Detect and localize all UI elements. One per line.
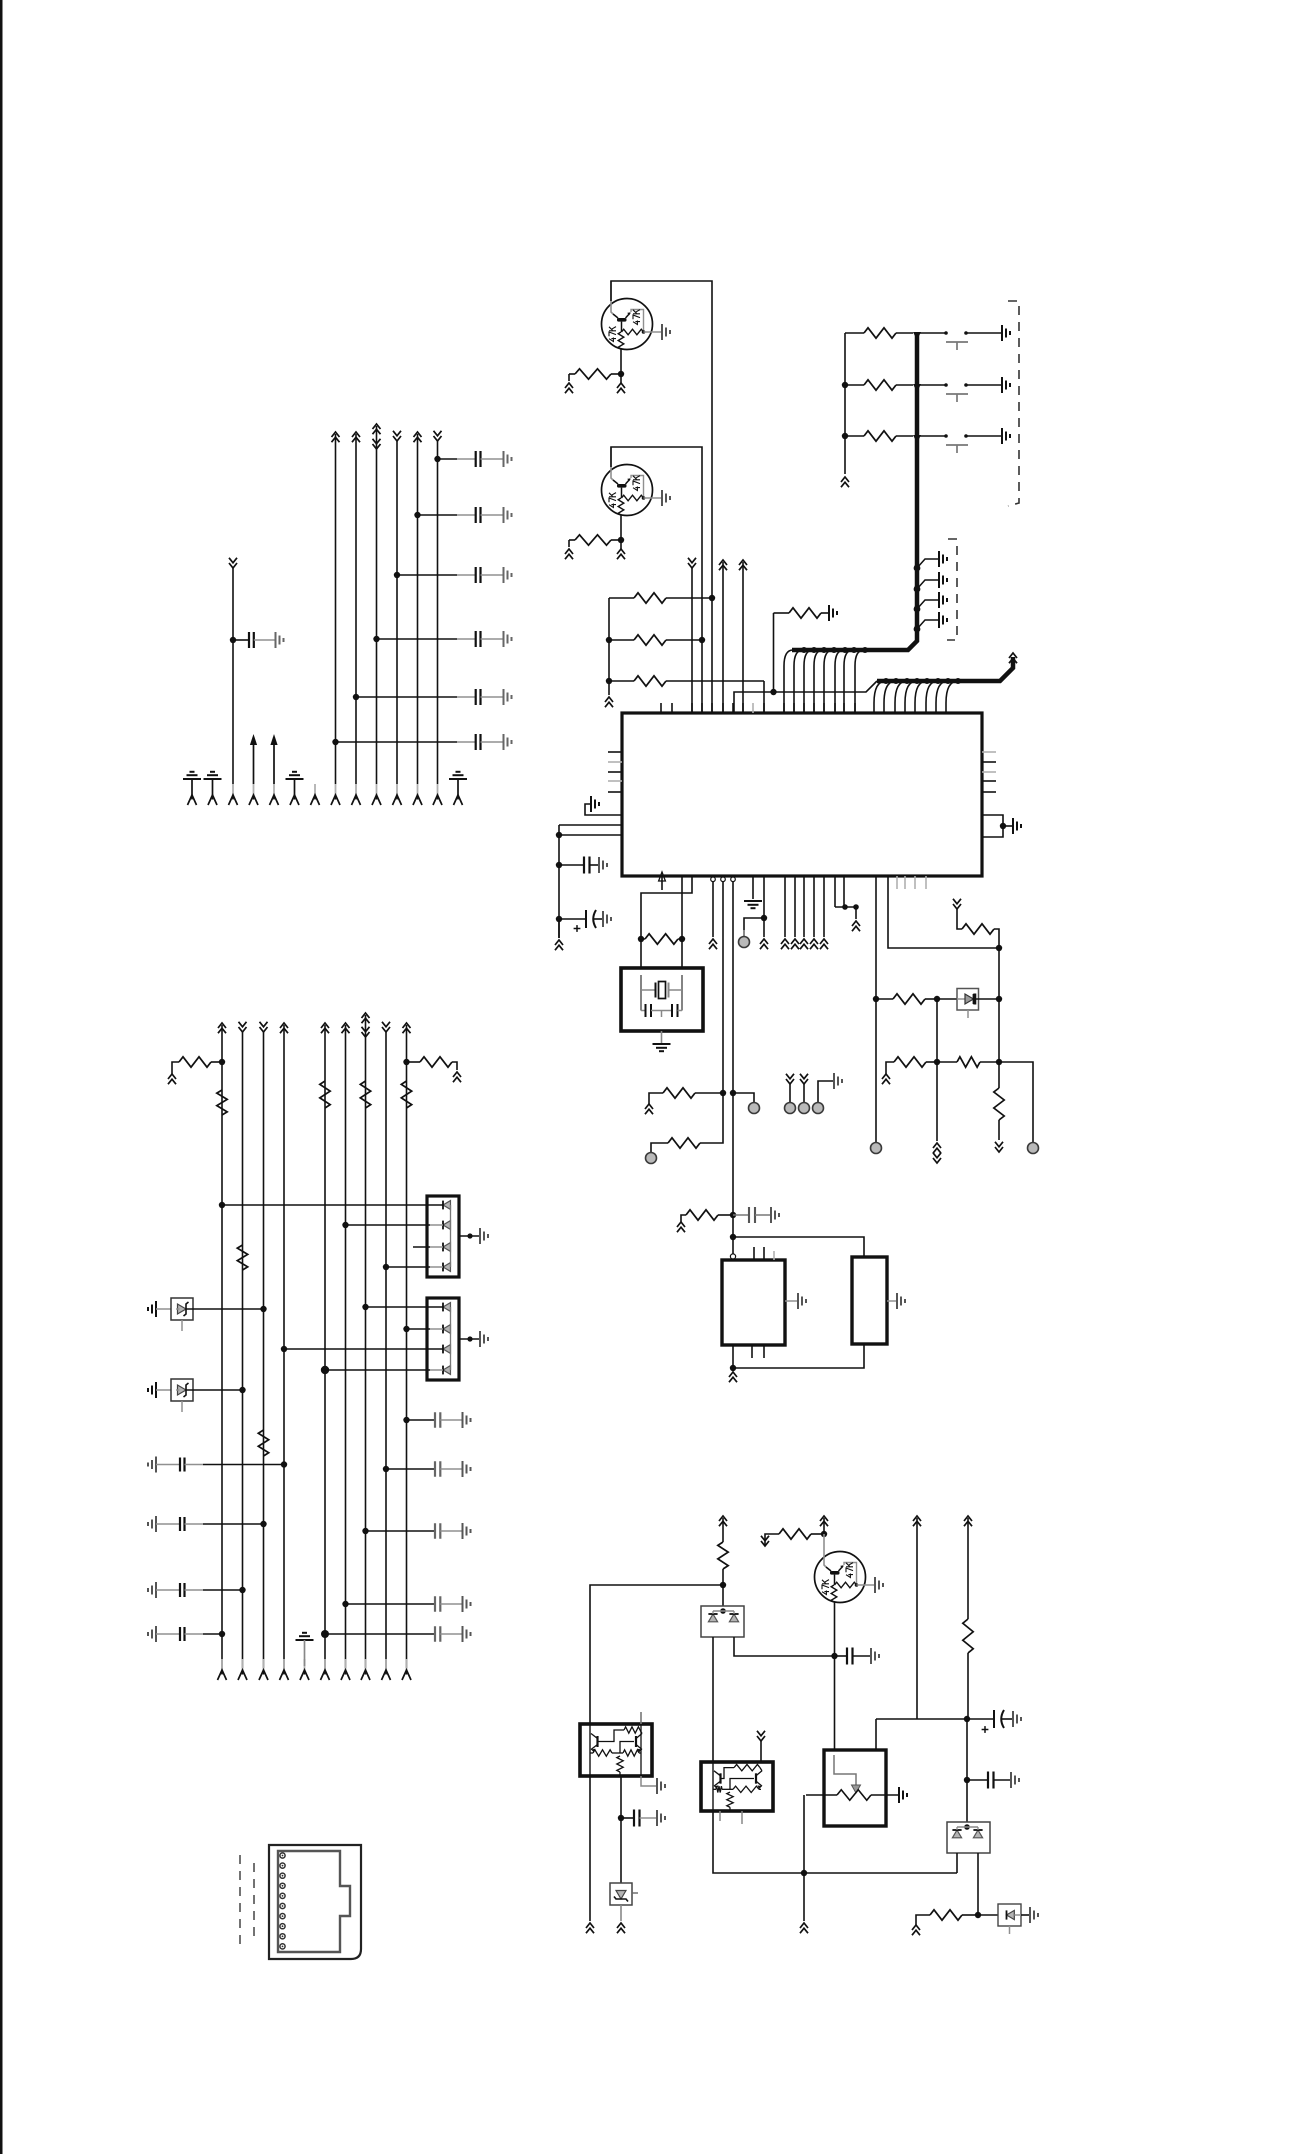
polarized capacitor C-left2 to ground (556, 916, 562, 922)
capacitor C-left1 to ground (556, 862, 562, 868)
resistor RH1 (882, 1074, 890, 1079)
line from top arrow through Q3 (820, 1516, 828, 1521)
wire horizontal link y692 from IC pin (734, 681, 877, 712)
zener diode Z3 (boxed) on box A center line (610, 1883, 632, 1905)
crystal block X1 (boxed) (621, 968, 703, 1031)
fan bus 2 (thick) with off-page arrow (877, 657, 1013, 681)
earth ground on pin 14 (456, 771, 461, 773)
zener diode box Z2 with ground (155, 1382, 157, 1398)
right capacitor rows (403, 1417, 409, 1423)
crystal load capacitors (641, 1010, 645, 1012)
arrow below rail (803, 1873, 805, 1921)
box M1 ground (785, 1300, 797, 1302)
wire from x733 to boxes (730, 1234, 736, 1240)
vertical resistors on lines 1,5,7,9 (217, 1090, 227, 1115)
resistor RD row y999 (873, 996, 879, 1002)
box B top-right arrow feed (757, 1736, 765, 1741)
line 3 with down arrow and capacitor (229, 563, 237, 568)
solid up arrows on pins 4,5 (253, 743, 255, 784)
off-page arrow at key feed bottom (841, 477, 849, 482)
connector dashed leads (239, 1848, 241, 1949)
P1 wiper and track (834, 1755, 856, 1785)
left-middle bottom pin forks (221, 1659, 223, 1670)
Q3 collector down (834, 1602, 836, 1750)
left capacitor rows (155, 1457, 157, 1473)
diode array DA1 (boxed, 4 diodes) (427, 1196, 459, 1277)
connector J1 inner cavity with key notch (278, 1851, 350, 1952)
boxed diode D1 (957, 989, 979, 1011)
lower dashed bracket (947, 539, 957, 640)
test points row y1108 (center) (786, 1079, 794, 1084)
wires from IC left pins to rail x559 (559, 824, 622, 826)
left-middle bus lines with top arrows (218, 1023, 226, 1028)
resistor RA2 row to Q2 line (606, 637, 612, 643)
resistor R1 at Q1 emitter (569, 373, 575, 375)
inverted earth symbols on pins 1,2,6 (190, 771, 195, 773)
bidirectional arrow below x938 (936, 1062, 938, 1141)
key group dashed bracket (1008, 301, 1019, 506)
wire input line with down arrow to IC (688, 563, 696, 568)
connector pin forks (top-left group) (188, 795, 197, 805)
box A center line down with capacitor (620, 1776, 622, 1884)
diode pair DP1 (boxed) (701, 1606, 744, 1637)
pin x888 wire to right rail (888, 876, 999, 948)
DP2 left diode to rail (956, 1853, 958, 1873)
ground below IC pin x753 (752, 876, 754, 899)
fan 1 curved wires from IC pins (784, 650, 793, 712)
resistor R2 at Q2 emitter (568, 540, 570, 547)
wire to test point TP1 (733, 1093, 754, 1103)
DP1 right diode wire to cap row (734, 1637, 833, 1656)
box A top-right stub (640, 1712, 642, 1724)
box M2 ground (887, 1300, 896, 1302)
wires into crystal block (640, 939, 642, 968)
transistor Q1 (digital transistor with 47K resistors) (602, 299, 653, 350)
off-page arrow below R1 (565, 383, 573, 388)
diode array DA2 (boxed, 4 diodes) (427, 1298, 459, 1380)
resistor RK1 (845, 332, 864, 334)
test point TP4 on x876 line (871, 1143, 882, 1154)
diode pair DP2 (boxed) (966, 1780, 968, 1822)
DA2 row wires (362, 1304, 368, 1310)
resistor RA3 row to IC pin (606, 678, 612, 684)
polarized capacitor CP1 (993, 1710, 995, 1728)
DA1 internal common rail and ground (450, 1205, 452, 1267)
DP2 right diode down to resistor row (977, 1853, 979, 1915)
bus ground taps with junction dots (914, 565, 921, 572)
wire down to diode pair DP1 (722, 1585, 724, 1606)
bubble line x713 to arrow (712, 882, 714, 937)
wire to test point TP3 (999, 1062, 1033, 1142)
crystal element (641, 989, 655, 991)
off-page arrow below Q1 emitter junction (620, 374, 622, 383)
resistor RK3 (842, 433, 848, 439)
right rail down (998, 948, 1000, 1062)
P1 top right wire to rail y1719 (875, 1719, 877, 1750)
DA2 internal common rail and ground (450, 1307, 452, 1370)
resistor RV vertical with arrow (998, 1062, 1000, 1088)
transistor Q3 (digital transistor) (815, 1552, 866, 1603)
decoupling capacitor rows (top-left) (434, 456, 440, 462)
IC pin bubbles (active low) (711, 877, 716, 882)
dual transistor box A (580, 1724, 652, 1776)
page left edge border (0, 0, 3, 2154)
connector J1 pins (280, 1853, 285, 1858)
boxed diode D2 (998, 1904, 1021, 1926)
wire left long to box A (590, 1585, 723, 1724)
wire vertical x804 from pot row to rail (803, 1795, 805, 1873)
bubble line x723 down (722, 882, 724, 1093)
box A bottom-right to ground (641, 1776, 656, 1786)
transistor Q2 (digital transistor with 47K resistors) (602, 465, 653, 516)
resistor RG row y1215 with capacitor to ground (677, 1222, 685, 1227)
connector J1 outline (269, 1845, 361, 1959)
resistor RB with ground (above IC) (773, 613, 775, 692)
wire input line x723 (719, 560, 727, 565)
resistor RE row y1093 (645, 1104, 653, 1109)
vertical resistor on line 2 (237, 1245, 247, 1270)
pin x764 to test point and arrow (763, 876, 765, 937)
capacitor row y1780 to ground (966, 1719, 968, 1780)
earth ground at x304 bottom (302, 1632, 307, 1634)
box A left line down to arrow (589, 1776, 591, 1921)
IC bottom arrow pin (input) (661, 876, 663, 890)
key switch SW1 (917, 332, 946, 334)
resistor RF row y1143 to test point TP2 (700, 1093, 723, 1143)
box M1 top stubs (753, 1247, 755, 1260)
IC right pin stubs (982, 751, 996, 753)
box B left line down to bottom rail (713, 1811, 957, 1873)
IC left pin stubs (608, 751, 622, 753)
x968 line: arrow, resistor down to rail (964, 1516, 972, 1521)
box B bottom stubs (719, 1811, 721, 1821)
dual transistor box B (701, 1762, 773, 1811)
capacitor row from Q3 to ground (831, 1653, 837, 1659)
wire straight pin to resistor right (681, 876, 683, 939)
wire Q2 emitter to junction (620, 515, 622, 540)
IC right pins bracket to ground (982, 815, 1003, 837)
fan 2 curved wires from IC pins (874, 681, 886, 703)
resistor RJ to Q3 base line (761, 1541, 769, 1546)
crystal block ground (661, 1031, 663, 1043)
wire Q1 emitter to junction (620, 349, 622, 374)
wire key-column feed line (844, 333, 846, 474)
rail y1719 with polarized capacitor (876, 1718, 994, 1720)
off-page arrow below Q2 emitter junction (620, 540, 622, 549)
bubble line x733 down (732, 882, 734, 1237)
vertical resistor on line 3 (258, 1430, 268, 1456)
key switch SW2 (917, 384, 946, 386)
resistor RH2 (937, 1061, 957, 1063)
arrow and resistor to Q3 region (719, 1516, 727, 1521)
ground at IC left pin (585, 804, 622, 815)
IC U1 main body (622, 713, 982, 876)
off-page arrow below rail x559 (558, 919, 560, 938)
key switch SW3 (917, 435, 946, 437)
potentiometer box P1 (824, 1750, 886, 1826)
wire from pin to crystal resistor left (641, 876, 692, 939)
resistor RK2 (842, 382, 848, 388)
key bus (thick) with merge arrows (792, 333, 917, 650)
off-page arrow below RA rows (605, 697, 613, 702)
DP1 left diode wire down to box B (712, 1637, 714, 1762)
bottom wire joining boxes with arrow (732, 1345, 734, 1368)
pin x876 long wire down (875, 876, 877, 999)
bridged pins with dots and arrow (834, 876, 836, 907)
bottom right row: arrow resistor boxed-diode ground (912, 1925, 920, 1930)
IC bottom pin stubs (896, 876, 898, 889)
resistor RC from arrow (top right) (953, 904, 961, 909)
resistor RA1 row to Q1 line (608, 598, 610, 695)
IC bottom pins to off-page arrows (784, 876, 786, 937)
box M1 (left module) (722, 1260, 785, 1345)
wire input line x743 (739, 560, 747, 565)
box M2 (right module) (852, 1257, 887, 1344)
DA1 row wires (219, 1202, 225, 1208)
IC top pin stubs (660, 703, 662, 713)
wire Q2 base feed from top rail (611, 447, 702, 713)
wire Q1 base feed from top rail (611, 281, 712, 713)
resistor RX across crystal (638, 936, 644, 942)
zener diode box Z1 with ground (155, 1301, 157, 1317)
box M1 bottom stubs (751, 1345, 753, 1358)
resistor RL2 (top right) with arrow (403, 1059, 409, 1065)
resistor RL1 (top left) with arrow (168, 1074, 176, 1079)
vertical bus lines 8-13 with arrows (332, 432, 340, 437)
off-page arrow below R2 (565, 549, 573, 554)
